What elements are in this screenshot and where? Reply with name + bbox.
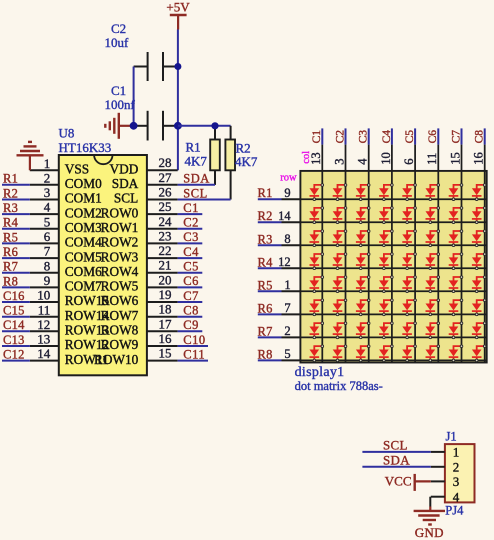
node C5 column wire [402, 128, 416, 362]
wire J1 pin 4 to ground [429, 497, 431, 511]
U8 pin 15 (ROW10) [94, 346, 178, 367]
LED row 3 col 2 [333, 230, 347, 247]
svg-text:VDD: VDD [109, 161, 138, 176]
svg-text:23: 23 [159, 228, 172, 243]
net label C10 (U8 pin 16) [178, 333, 208, 347]
svg-text:16: 16 [472, 152, 486, 165]
LED row 5 col 6 [426, 276, 440, 293]
LED row 7 col 6 [426, 322, 440, 339]
LED row 6 col 4 [379, 299, 393, 316]
svg-text:R8: R8 [3, 274, 18, 288]
svg-text:R3: R3 [258, 232, 273, 246]
svg-text:C16: C16 [3, 289, 25, 303]
resistor R1 4K7 [185, 140, 220, 171]
LED row 1 col 5 [402, 184, 416, 201]
LED row 1 col 6 [426, 184, 440, 201]
svg-text:COM2: COM2 [65, 205, 102, 220]
net label C6 (U8 pin 20) [178, 274, 203, 288]
LED row 2 col 3 [356, 207, 370, 224]
node C8 column wire [472, 128, 486, 362]
U8 pin 1 (VSS) [30, 156, 89, 177]
svg-text:ROW8: ROW8 [101, 323, 139, 338]
net label R7 (U8 pin 8) [2, 260, 30, 274]
svg-text:SCL: SCL [383, 437, 408, 452]
svg-text:ROW4: ROW4 [101, 264, 139, 279]
LED row 4 col 4 [379, 253, 393, 270]
svg-text:10: 10 [379, 152, 393, 165]
svg-text:C3: C3 [358, 130, 370, 144]
svg-text:HT16K33: HT16K33 [59, 140, 112, 155]
net label SCL (U8 pin 26) [178, 186, 231, 200]
svg-text:R3: R3 [3, 201, 18, 215]
svg-text:5: 5 [284, 347, 290, 361]
svg-text:COM6: COM6 [65, 264, 102, 279]
LED row 3 col 7 [449, 230, 463, 247]
svg-text:18: 18 [159, 302, 172, 317]
net label C4 (U8 pin 22) [178, 245, 203, 259]
ground (at C1 left) [105, 113, 133, 139]
U8 pin 20 (ROW5) [101, 272, 178, 293]
svg-text:C4: C4 [381, 130, 393, 144]
LED row 4 col 2 [333, 253, 347, 270]
LED row 5 col 1 [310, 276, 324, 293]
node R4 row wire [258, 255, 487, 269]
LED row 8 col 5 [402, 345, 416, 362]
net label C16 (U8 pin 10) [2, 289, 30, 303]
svg-text:12: 12 [278, 255, 291, 269]
svg-text:C5: C5 [183, 260, 199, 274]
svg-text:C7: C7 [450, 130, 462, 144]
svg-text:R6: R6 [258, 301, 273, 315]
LED row 8 col 8 [472, 345, 486, 362]
svg-text:U8: U8 [59, 126, 75, 141]
U8 pin 19 (ROW6) [101, 287, 178, 308]
LED row 6 col 8 [472, 299, 486, 316]
LED row 7 col 5 [402, 322, 416, 339]
LED row 2 col 2 [333, 207, 347, 224]
svg-text:C2: C2 [334, 130, 346, 144]
svg-text:row: row [280, 173, 297, 184]
svg-text:SDA: SDA [112, 176, 139, 191]
junction ground node [130, 122, 138, 130]
svg-text:C1: C1 [111, 83, 126, 98]
dot matrix display1 body [300, 171, 486, 363]
U8 pin 9 (COM7) [30, 273, 102, 294]
net label C11 (U8 pin 15) [178, 347, 208, 361]
svg-text:COM4: COM4 [65, 235, 102, 250]
LED row 4 col 1 [310, 253, 324, 270]
svg-text:C7: C7 [183, 289, 199, 303]
svg-text:C6: C6 [183, 274, 199, 288]
svg-text:20: 20 [159, 272, 172, 287]
net label R5 (U8 pin 6) [2, 230, 30, 244]
svg-text:1: 1 [44, 156, 51, 171]
node C3 column wire [356, 128, 370, 362]
LED row 5 col 5 [402, 276, 416, 293]
LED row 6 col 2 [333, 299, 347, 316]
J1 pin 4 [431, 490, 460, 505]
LED row 7 col 1 [310, 322, 324, 339]
svg-text:1: 1 [284, 278, 290, 292]
LED row 8 col 1 [310, 345, 324, 362]
net label C7 (U8 pin 19) [178, 289, 203, 303]
svg-text:C8: C8 [183, 304, 199, 318]
net label C9 (U8 pin 17) [178, 318, 203, 332]
U8 pin 5 (COM3) [30, 214, 102, 235]
capacitor C2 10uf [105, 21, 178, 81]
svg-text:1: 1 [453, 445, 460, 460]
LED row 4 col 8 [472, 253, 486, 270]
node R6 row wire [258, 301, 487, 315]
node C4 column wire [379, 128, 393, 362]
wire R1 bottom to SDA [214, 170, 216, 185]
LED row 3 col 5 [402, 230, 416, 247]
svg-text:PJ4: PJ4 [445, 504, 464, 518]
junction C1/+5V [174, 122, 182, 130]
svg-text:15: 15 [448, 152, 462, 165]
svg-text:ROW3: ROW3 [101, 249, 139, 264]
LED row 7 col 3 [356, 322, 370, 339]
svg-text:8: 8 [44, 258, 51, 273]
LED row 1 col 3 [356, 184, 370, 201]
svg-text:C2: C2 [111, 21, 126, 36]
svg-text:4: 4 [453, 490, 460, 505]
svg-text:14: 14 [278, 209, 291, 223]
svg-text:6: 6 [44, 229, 51, 244]
U8 pin 22 (ROW3) [101, 243, 178, 264]
J1 pin 2 [431, 460, 459, 475]
LED row 4 col 6 [426, 253, 440, 270]
U8 pin 12 (ROW13) [30, 317, 110, 338]
svg-text:25: 25 [159, 199, 172, 214]
svg-text:14: 14 [37, 346, 51, 361]
net label C13 (U8 pin 13) [2, 333, 30, 347]
U8 pin 11 (ROW14) [30, 302, 110, 323]
svg-text:SCL: SCL [183, 186, 207, 200]
LED row 8 col 2 [333, 345, 347, 362]
net label R8 (U8 pin 9) [2, 274, 30, 288]
svg-text:R1: R1 [186, 140, 201, 155]
svg-text:C9: C9 [183, 318, 199, 332]
svg-text:C11: C11 [183, 347, 205, 361]
LED row 2 col 1 [310, 207, 324, 224]
U8 pin 7 (COM5) [30, 244, 102, 265]
U8 pin 28 (VDD) [109, 155, 177, 176]
svg-text:2: 2 [284, 324, 290, 338]
svg-text:C12: C12 [3, 348, 25, 362]
net label R6 (U8 pin 7) [2, 245, 30, 259]
U8 pin 17 (ROW8) [101, 316, 178, 337]
junction C2/+5V [174, 63, 181, 70]
LED row 1 col 4 [379, 184, 393, 201]
wire R2 bottom to SCL [230, 170, 232, 199]
svg-text:C8: C8 [474, 130, 486, 144]
svg-text:COM1: COM1 [65, 191, 102, 206]
net label C5 (U8 pin 21) [178, 260, 203, 274]
net label C12 (U8 pin 14) [2, 348, 30, 362]
LED row 1 col 8 [472, 184, 486, 201]
svg-text:11: 11 [425, 153, 439, 165]
LED row 7 col 2 [333, 322, 347, 339]
svg-text:10: 10 [37, 288, 50, 303]
power +5V [166, 0, 190, 30]
LED row 3 col 4 [379, 230, 393, 247]
svg-text:12: 12 [37, 317, 50, 332]
LED row 6 col 7 [449, 299, 463, 316]
svg-text:3: 3 [44, 185, 51, 200]
svg-text:R1: R1 [258, 186, 273, 200]
node C7 column wire [448, 128, 462, 362]
svg-text:28: 28 [159, 155, 172, 170]
svg-text:4: 4 [44, 200, 51, 215]
U8 pin 13 (ROW12) [30, 332, 109, 353]
svg-text:R7: R7 [3, 260, 18, 274]
node C6 column wire [425, 128, 439, 362]
svg-text:GND: GND [415, 525, 444, 540]
U8 pin 14 (ROW11) [30, 346, 109, 367]
ground PJ4 GND [414, 504, 465, 540]
U8 pin 2 (COM0) [30, 170, 102, 191]
svg-text:21: 21 [159, 258, 172, 273]
LED row 3 col 6 [426, 230, 440, 247]
net label C1 (U8 pin 25) [178, 201, 203, 215]
svg-text:ROW7: ROW7 [101, 308, 139, 323]
wire C2 left to ground node [133, 67, 135, 126]
svg-text:11: 11 [38, 302, 51, 317]
LED row 5 col 8 [472, 276, 486, 293]
node R2 row wire [258, 209, 487, 223]
U8 pin 26 (SCL) [114, 185, 178, 206]
U8 pin 10 (ROW15) [30, 288, 110, 309]
svg-text:C1: C1 [311, 130, 323, 144]
svg-text:3: 3 [453, 474, 460, 489]
net label SCL (J1 pin 1) [362, 437, 430, 452]
svg-text:R8: R8 [258, 347, 273, 361]
LED row 3 col 3 [356, 230, 370, 247]
svg-text:R2: R2 [3, 186, 18, 200]
svg-text:COM7: COM7 [65, 279, 102, 294]
svg-text:C15: C15 [3, 304, 25, 318]
LED row 5 col 4 [379, 276, 393, 293]
net label R4 (U8 pin 5) [2, 216, 30, 230]
svg-text:SDA: SDA [183, 172, 210, 186]
LED row 1 col 2 [333, 184, 347, 201]
svg-text:ROW6: ROW6 [101, 293, 139, 308]
svg-text:ROW0: ROW0 [101, 205, 139, 220]
svg-text:SCL: SCL [114, 191, 138, 206]
LED row 6 col 5 [402, 299, 416, 316]
svg-text:R5: R5 [3, 230, 18, 244]
svg-text:4K7: 4K7 [185, 154, 208, 169]
U8 pin 4 (COM2) [30, 200, 102, 221]
svg-text:4K7: 4K7 [235, 154, 258, 169]
node R5 row wire [258, 278, 487, 292]
svg-text:SDA: SDA [383, 452, 410, 467]
LED row 5 col 2 [333, 276, 347, 293]
svg-text:R2: R2 [258, 209, 273, 223]
svg-text:26: 26 [159, 185, 173, 200]
svg-text:16: 16 [159, 331, 173, 346]
svg-text:2: 2 [453, 460, 460, 475]
LED row 1 col 1 [310, 184, 324, 201]
U8 pin 18 (ROW7) [101, 302, 178, 323]
net label C8 (U8 pin 18) [178, 304, 203, 318]
svg-text:C10: C10 [183, 333, 205, 347]
op-amp U8 HT16K33 body [59, 126, 147, 376]
svg-text:VCC: VCC [385, 473, 412, 488]
svg-text:7: 7 [44, 244, 51, 259]
node R3 row wire [258, 232, 487, 246]
svg-text:C6: C6 [427, 130, 439, 144]
svg-text:9: 9 [44, 273, 51, 288]
net label SDA (J1 pin 2) [362, 452, 430, 467]
svg-text:9: 9 [284, 186, 290, 200]
svg-text:8: 8 [284, 232, 290, 246]
svg-text:C13: C13 [3, 333, 25, 347]
node C2 column wire [332, 128, 346, 362]
U8 pin 6 (COM4) [30, 229, 102, 250]
U8 pin 25 (ROW0) [101, 199, 178, 220]
svg-text:COM3: COM3 [65, 220, 102, 235]
U8 pin 3 (COM1) [30, 185, 102, 206]
svg-text:19: 19 [159, 287, 172, 302]
svg-text:3: 3 [332, 159, 346, 165]
capacitor C1 100nf [105, 83, 178, 141]
LED row 8 col 7 [449, 345, 463, 362]
svg-text:C4: C4 [183, 245, 199, 259]
svg-text:col: col [301, 151, 312, 164]
svg-text:ROW9: ROW9 [101, 337, 139, 352]
svg-text:10uf: 10uf [105, 35, 130, 50]
U8 pin 27 (SDA) [112, 170, 178, 191]
svg-text:ROW10: ROW10 [94, 352, 139, 367]
wire +5V rail to R1 R2 [178, 125, 231, 127]
LED row 6 col 6 [426, 299, 440, 316]
svg-text:24: 24 [159, 214, 173, 229]
svg-text:+5V: +5V [166, 0, 190, 14]
svg-text:17: 17 [159, 316, 173, 331]
svg-text:VSS: VSS [65, 161, 89, 176]
LED row 6 col 3 [356, 299, 370, 316]
svg-text:C14: C14 [3, 318, 25, 332]
svg-text:R1: R1 [3, 172, 18, 186]
LED row 3 col 1 [310, 230, 324, 247]
LED row 6 col 1 [310, 299, 324, 316]
svg-text:dot matrix 788as-: dot matrix 788as- [295, 379, 383, 393]
J1 pin 1 [431, 445, 459, 460]
LED row 5 col 3 [356, 276, 370, 293]
svg-text:COM5: COM5 [65, 249, 102, 264]
svg-text:C5: C5 [404, 130, 416, 144]
LED row 2 col 7 [449, 207, 463, 224]
LED row 5 col 7 [449, 276, 463, 293]
svg-text:ROW1: ROW1 [101, 220, 139, 235]
net label C15 (U8 pin 11) [2, 304, 30, 318]
U8 pin 8 (COM6) [30, 258, 102, 279]
svg-text:2: 2 [44, 170, 51, 185]
svg-text:13: 13 [37, 332, 50, 347]
LED row 4 col 5 [402, 253, 416, 270]
svg-text:4: 4 [356, 158, 370, 165]
LED row 2 col 5 [402, 207, 416, 224]
svg-text:ROW2: ROW2 [101, 235, 139, 250]
ground (U8 pin 1) [17, 142, 44, 170]
LED row 4 col 3 [356, 253, 370, 270]
svg-text:R4: R4 [258, 255, 274, 269]
svg-text:C3: C3 [183, 230, 199, 244]
U8 pin 16 (ROW9) [101, 331, 178, 352]
net label R1 (U8 pin 2) [2, 172, 30, 186]
connector J1 body [445, 429, 475, 502]
net label R2 (U8 pin 3) [2, 186, 30, 200]
LED row 8 col 4 [379, 345, 393, 362]
svg-text:COM0: COM0 [65, 176, 102, 191]
LED row 2 col 4 [379, 207, 393, 224]
U8 pin 23 (ROW2) [101, 228, 178, 249]
svg-text:15: 15 [159, 346, 172, 361]
LED row 2 col 8 [472, 207, 486, 224]
svg-text:R5: R5 [258, 278, 273, 292]
svg-text:6: 6 [402, 159, 416, 165]
LED row 8 col 3 [356, 345, 370, 362]
power VCC (J1 pin 3) [385, 473, 431, 491]
net label SDA (U8 pin 27) [178, 172, 215, 186]
J1 pin 3 [431, 474, 459, 489]
net label C2 (U8 pin 24) [178, 216, 203, 230]
net label R3 (U8 pin 4) [2, 201, 30, 215]
svg-text:5: 5 [44, 214, 51, 229]
net label C14 (U8 pin 12) [2, 318, 30, 332]
svg-text:100nf: 100nf [105, 97, 136, 112]
U8 pin 21 (ROW4) [101, 258, 178, 279]
LED row 4 col 7 [449, 253, 463, 270]
svg-text:C1: C1 [183, 201, 199, 215]
svg-text:J1: J1 [446, 429, 457, 443]
node R1 row wire [258, 186, 487, 200]
LED row 2 col 6 [426, 207, 440, 224]
svg-text:R4: R4 [3, 216, 19, 230]
net label C3 (U8 pin 23) [178, 230, 203, 244]
svg-text:7: 7 [284, 301, 290, 315]
U8 pin 24 (ROW1) [101, 214, 178, 235]
LED row 7 col 4 [379, 322, 393, 339]
LED row 1 col 7 [449, 184, 463, 201]
LED row 3 col 8 [472, 230, 486, 247]
node R8 row wire [258, 347, 487, 361]
svg-text:27: 27 [159, 170, 173, 185]
svg-text:R6: R6 [3, 245, 18, 259]
resistor R2 4K7 [225, 140, 257, 171]
svg-text:R7: R7 [258, 324, 273, 338]
node C1 column wire [309, 128, 323, 362]
svg-text:C2: C2 [183, 216, 199, 230]
LED row 7 col 8 [472, 322, 486, 339]
svg-text:ROW5: ROW5 [101, 279, 139, 294]
svg-text:22: 22 [159, 243, 172, 258]
wire +5V vertical to U8 pin 28 [177, 30, 179, 171]
junction R1 top [211, 122, 218, 129]
LED row 7 col 7 [449, 322, 463, 339]
node R7 row wire [258, 324, 487, 338]
LED row 8 col 6 [426, 345, 440, 362]
